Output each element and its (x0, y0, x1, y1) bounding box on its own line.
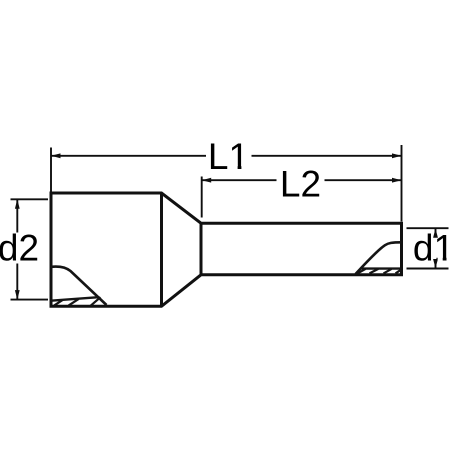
L1 arrow right (392, 153, 402, 158)
L2 extension line left (201, 177, 203, 218)
tube hatch line 4 (396, 270, 402, 274)
L1 dimension line (51, 155, 402, 157)
svg-text:d2: d2 (0, 228, 39, 269)
collar hatch line 3 (91, 297, 101, 306)
L1 extension line left (50, 148, 52, 192)
L2 arrow left (202, 178, 212, 183)
d2 extension line bottom (11, 299, 49, 301)
d2 arrow bottom (15, 290, 20, 300)
svg-text:d: d (413, 228, 434, 269)
d2 dimension line (16, 199, 18, 299)
svg-text:L2: L2 (280, 163, 321, 204)
collar right edge (160, 193, 163, 306)
d2 extension line top (11, 198, 49, 200)
svg-text:1: 1 (434, 228, 450, 269)
d1 extension line bottom (407, 268, 449, 270)
tube hatch line 2 (370, 269, 379, 274)
collar bore line (51, 297, 99, 301)
L1/L2 extension line right (401, 145, 403, 222)
tube break curve (356, 242, 402, 274)
d1 arrow top (433, 228, 438, 238)
collar break curve (51, 267, 107, 305)
L1 arrow left (51, 153, 61, 158)
tube hatch line 1 (358, 269, 366, 274)
tube bore line (362, 267, 402, 269)
collar hatch line 1 (54, 300, 63, 306)
taper-tube junction line (200, 223, 203, 275)
d1 dimension line (435, 228, 437, 268)
d2 arrow top (15, 199, 20, 209)
L2 arrow right (392, 178, 402, 183)
L2 dimension line (202, 179, 402, 181)
ferrule body outline (51, 193, 402, 306)
svg-text:L1: L1 (208, 136, 249, 177)
tube hatch line 3 (384, 269, 392, 274)
d1 extension line top (407, 227, 449, 229)
d1 arrow bottom (433, 259, 438, 269)
collar hatch line 2 (69, 299, 79, 306)
